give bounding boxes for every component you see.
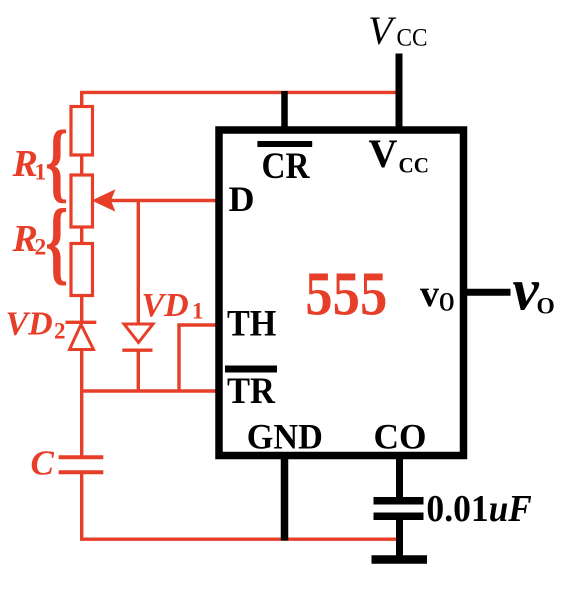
label VD2 bbox=[6, 306, 66, 344]
svg-text:TR: TR bbox=[227, 371, 276, 412]
svg-text:D: D bbox=[229, 179, 255, 219]
svg-text:CO: CO bbox=[374, 417, 427, 457]
svg-text:O: O bbox=[537, 294, 555, 320]
ground bbox=[372, 555, 428, 564]
wire: branch from D wire down to VD1 bbox=[137, 201, 140, 325]
svg-text:VD: VD bbox=[142, 287, 189, 324]
svg-text:1: 1 bbox=[35, 160, 47, 186]
capacitor C bbox=[59, 457, 104, 539]
capacitor C2 0.01uF bbox=[374, 501, 424, 556]
svg-text:{: { bbox=[45, 189, 68, 293]
pin VCC label (inside IC) bbox=[369, 131, 430, 178]
wire: red bottom rail bbox=[80, 538, 400, 541]
resistor R2 (lower box of chain) bbox=[71, 244, 93, 296]
pin vO label (inside IC) bbox=[420, 273, 455, 317]
label 555 bbox=[305, 261, 387, 329]
label 0.01uF bbox=[426, 488, 531, 530]
svg-text:V: V bbox=[369, 131, 398, 176]
pin GND wire bbox=[281, 455, 289, 541]
pin GND label bbox=[247, 417, 323, 457]
svg-text:0.01: 0.01 bbox=[426, 488, 488, 530]
pin CR label with overline bbox=[257, 141, 312, 187]
brace for R1 bbox=[45, 114, 68, 212]
label VCC (top, supply node) bbox=[368, 8, 428, 53]
svg-text:O: O bbox=[439, 288, 455, 317]
wire: TH branch (red) bbox=[179, 325, 217, 392]
pin D label bbox=[229, 179, 255, 219]
IC U1: 555 timer body bbox=[219, 130, 464, 456]
label R2 bbox=[12, 218, 47, 261]
svg-text:CC: CC bbox=[399, 153, 430, 178]
svg-text:v: v bbox=[420, 273, 439, 315]
svg-text:VD: VD bbox=[6, 306, 53, 343]
pin TH label bbox=[227, 304, 276, 345]
wire: red VCC top rail from resistor chain to VCC pin bbox=[82, 92, 399, 107]
diode VD2 (pointing up) bbox=[66, 322, 97, 456]
pin TR label with overline bbox=[225, 366, 277, 413]
wire: red left rail between resistors and down to VD2 bbox=[80, 154, 83, 322]
label VD1 bbox=[142, 287, 204, 324]
pin CO wire bbox=[396, 455, 403, 500]
pin VCC wire (power) bbox=[396, 54, 403, 131]
resistor (middle box, potentiometer section) bbox=[71, 175, 93, 227]
resistor R1 (upper box of chain) bbox=[71, 107, 93, 156]
diode VD1 (pointing down) bbox=[122, 324, 153, 392]
potentiometer wiper arrow and wire to pin D bbox=[93, 190, 217, 210]
label R1 bbox=[12, 143, 47, 186]
svg-text:2: 2 bbox=[54, 319, 66, 344]
svg-text:uF: uF bbox=[489, 488, 532, 530]
svg-text:555: 555 bbox=[305, 261, 387, 329]
pin CR wire (reset to VCC rail) bbox=[281, 91, 288, 130]
svg-text:CR: CR bbox=[262, 146, 311, 187]
svg-text:TH: TH bbox=[227, 304, 276, 345]
brace for R2 bbox=[45, 189, 68, 293]
svg-text:GND: GND bbox=[247, 417, 323, 457]
wire: TR rail (red) bbox=[80, 389, 217, 392]
pin CO label bbox=[374, 417, 427, 457]
node vO (output label, italic) bbox=[513, 257, 555, 323]
svg-text:CC: CC bbox=[397, 25, 428, 52]
svg-text:1: 1 bbox=[192, 299, 204, 324]
svg-text:2: 2 bbox=[35, 235, 47, 261]
svg-text:v: v bbox=[513, 257, 540, 323]
label C bbox=[31, 444, 55, 483]
wire: output vO bbox=[463, 289, 511, 296]
svg-text:C: C bbox=[31, 444, 55, 483]
